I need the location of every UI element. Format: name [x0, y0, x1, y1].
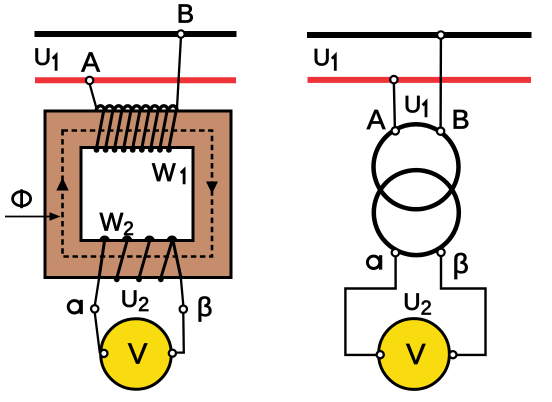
- voltmeter right: right terminal: [449, 351, 456, 358]
- svg-text:A: A: [81, 46, 100, 77]
- transformer symbol secondary circle: [374, 170, 459, 255]
- node on red bus right: [390, 76, 397, 83]
- svg-text:B: B: [452, 105, 470, 135]
- node beta left: [180, 306, 187, 313]
- flux arrow into core: [5, 216, 52, 218]
- wire B to winding W1: [177, 38, 181, 108]
- svg-text:U2: U2: [403, 289, 431, 319]
- svg-text:U: U: [313, 44, 330, 71]
- flux path (dashed): [63, 131, 213, 257]
- wire W2 to node beta: [181, 278, 184, 306]
- W1 turn-end dots (bottom of top limb): [94, 147, 172, 153]
- node A on primary circle: [392, 127, 399, 134]
- voltmeter V right: [379, 319, 450, 390]
- svg-text:U: U: [34, 44, 51, 71]
- svg-text:β: β: [453, 248, 469, 279]
- wire node beta to voltmeter: [177, 313, 184, 352]
- wire a to voltmeter right: [345, 257, 395, 355]
- flux arrow down (right limb): [206, 182, 218, 194]
- winding W2 (secondary, 4 turns on bottom limb): [99, 237, 181, 278]
- right supply line L2 (red bus): [308, 77, 532, 83]
- node beta on secondary circle: [437, 249, 444, 256]
- right supply line L1 (black bus): [307, 32, 532, 38]
- node B on black bus: [177, 30, 184, 37]
- node a left: [91, 305, 98, 312]
- svg-text:W: W: [152, 159, 176, 187]
- wire node a to voltmeter: [95, 313, 100, 353]
- wire W2 to node a: [95, 278, 99, 306]
- wire red bus to transformer A: [394, 84, 395, 129]
- node A on red bus: [86, 77, 93, 84]
- svg-text:A: A: [367, 104, 386, 135]
- transformer symbol primary circle: [374, 124, 459, 209]
- W2 turn-end dots (below bottom limb): [114, 276, 164, 282]
- label a right: [367, 255, 380, 269]
- svg-text:B: B: [177, 0, 194, 29]
- flux arrow up (left limb): [56, 178, 68, 191]
- core window: [81, 148, 193, 241]
- wire A to winding W1: [90, 85, 97, 110]
- node B on primary circle: [437, 128, 444, 135]
- wire black bus to transformer B: [439, 39, 442, 130]
- label a left: [68, 300, 81, 314]
- wire beta to voltmeter right: [441, 256, 486, 355]
- svg-text:β: β: [197, 292, 213, 322]
- svg-text:V: V: [128, 339, 148, 371]
- node a on secondary circle: [392, 249, 399, 256]
- voltmeter V left: [101, 319, 172, 390]
- transformer core (iron): [45, 111, 231, 278]
- svg-text:V: V: [406, 339, 426, 371]
- winding W1 (primary, 9 turns on top limb): [96, 106, 177, 149]
- voltmeter left terminal: [100, 350, 107, 357]
- svg-text:U: U: [404, 92, 421, 119]
- svg-text:U2: U2: [121, 286, 149, 316]
- label phi: [13, 189, 31, 208]
- left supply line L1 (black bus): [35, 31, 237, 37]
- voltmeter right: left terminal: [377, 351, 384, 358]
- left supply line L2 (red bus): [35, 77, 236, 83]
- node on black bus right: [437, 31, 444, 38]
- voltmeter right terminal: [169, 350, 176, 357]
